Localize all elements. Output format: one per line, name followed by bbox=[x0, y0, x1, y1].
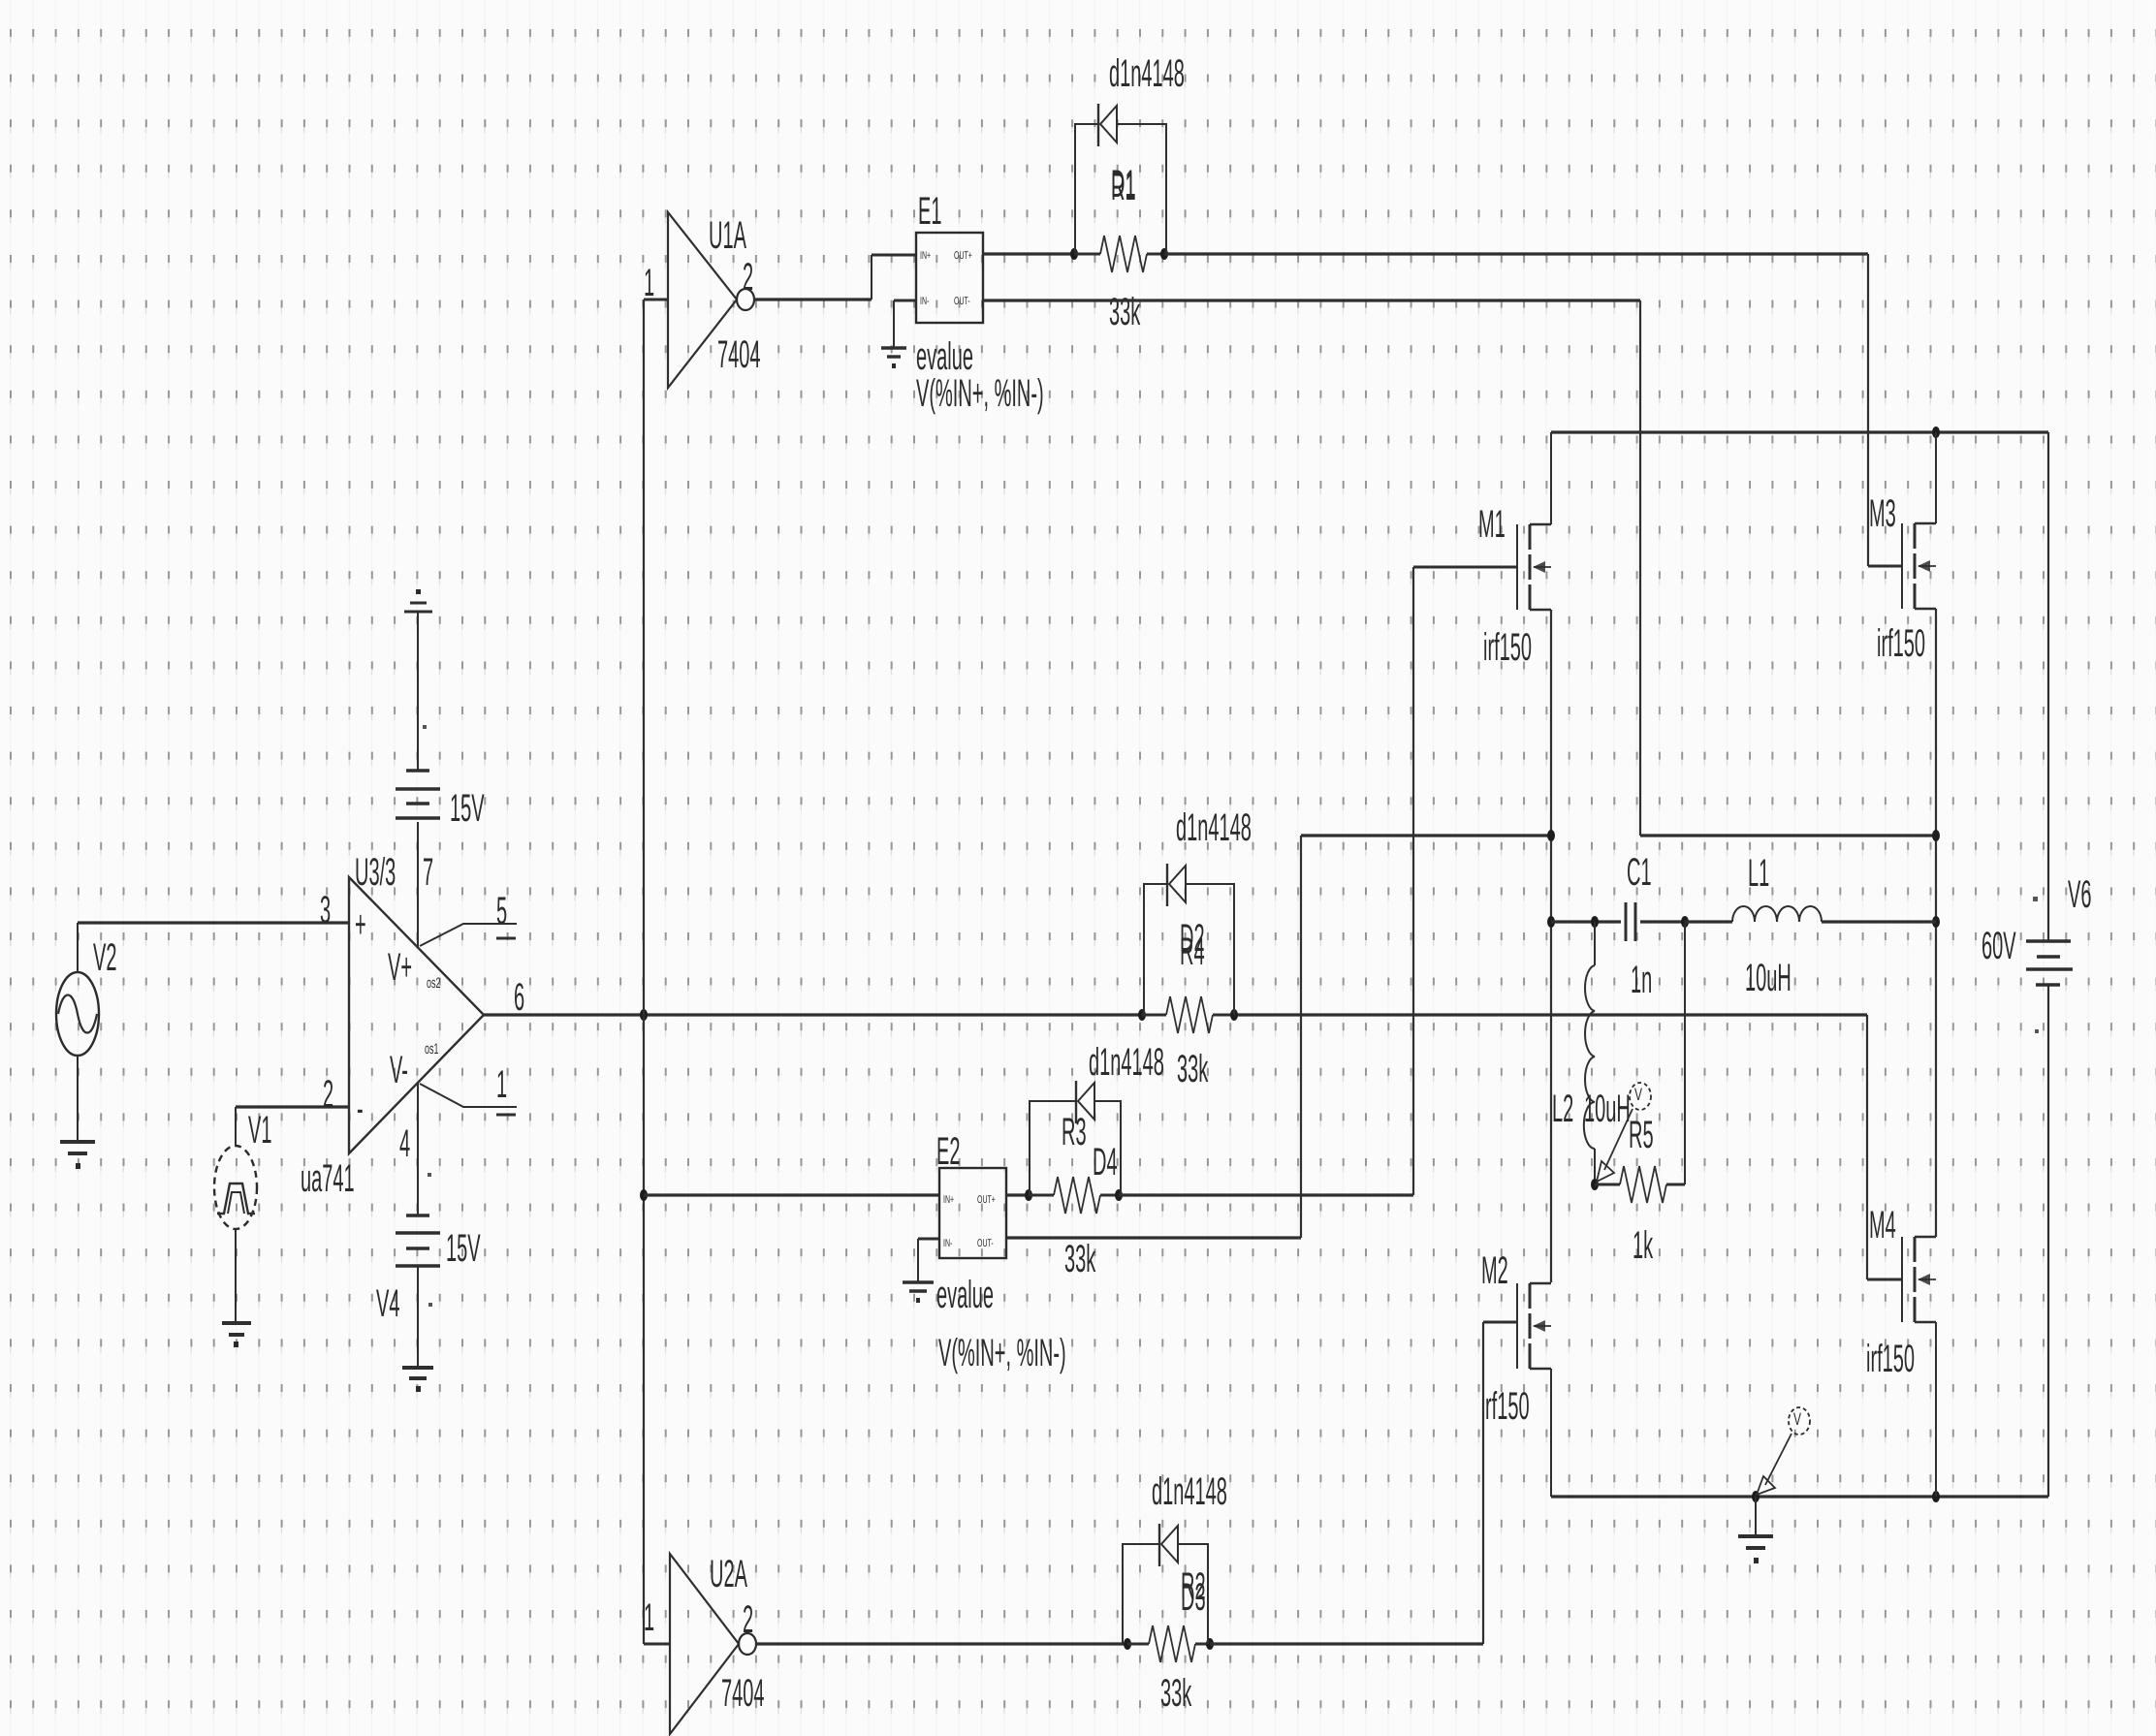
svg-text:L2: L2 bbox=[1552, 1089, 1573, 1131]
diode D4 d1n4148 (parallel with R3) bbox=[1030, 1042, 1164, 1195]
svg-text:2: 2 bbox=[743, 1599, 753, 1642]
wire vertical bus to U1A / E2 / U2A inputs bbox=[643, 300, 645, 1644]
svg-text:3: 3 bbox=[320, 890, 331, 932]
wire E1 OUT- to output node B bbox=[983, 300, 1936, 836]
svg-text:evalue: evalue bbox=[936, 1275, 994, 1317]
wire V1 top to op-amp pin 2 bbox=[236, 1107, 349, 1146]
svg-text:7: 7 bbox=[423, 852, 433, 895]
svg-text:V1: V1 bbox=[248, 1110, 271, 1152]
resistor R3 33k bbox=[1029, 1177, 1119, 1281]
svg-text:IN-: IN- bbox=[920, 297, 930, 307]
node: R4 right bbox=[1230, 1009, 1238, 1021]
svg-text:+: + bbox=[355, 904, 366, 947]
svg-text:OUT+: OUT+ bbox=[954, 251, 972, 262]
ground (V2) bbox=[60, 1142, 95, 1169]
resistor R4 33k (series in op-amp output) bbox=[1142, 996, 1234, 1091]
svg-text:V: V bbox=[1793, 1409, 1801, 1430]
svg-text:IN-: IN- bbox=[943, 1239, 953, 1249]
svg-text:L1: L1 bbox=[1748, 853, 1769, 896]
svg-text:irf150: irf150 bbox=[1877, 623, 1925, 666]
svg-text:1n: 1n bbox=[1631, 960, 1652, 1002]
wire E2 OUT- to node A bbox=[1006, 836, 1551, 1238]
svg-text:V6: V6 bbox=[2068, 874, 2091, 917]
node: node B top (E1 ref) bbox=[1932, 830, 1940, 841]
wire E1 OUT+ to R1 bbox=[983, 252, 1074, 255]
transistor M4 irf150 bbox=[1866, 1205, 1936, 1381]
resistor R1 33k bbox=[1074, 236, 1164, 334]
wire M3 drain to rail bbox=[1935, 432, 1937, 523]
voltage probe (node A filter tap) bbox=[1597, 1083, 1651, 1182]
svg-text:M2: M2 bbox=[1481, 1250, 1508, 1293]
svg-text:irf150: irf150 bbox=[1483, 627, 1532, 670]
svg-text:-: - bbox=[357, 1089, 364, 1131]
ground (bottom rail) bbox=[1738, 1536, 1773, 1563]
svg-text:V4: V4 bbox=[376, 1283, 399, 1326]
svg-text:33k: 33k bbox=[1064, 1239, 1096, 1281]
svg-text:1: 1 bbox=[644, 263, 654, 305]
svg-text:d1n4148: d1n4148 bbox=[1152, 1471, 1227, 1514]
svg-text:60V: 60V bbox=[1982, 926, 2016, 968]
wire op-amp pin 7 to battery V3 bbox=[417, 822, 419, 948]
svg-text:d1n4148: d1n4148 bbox=[1109, 53, 1185, 96]
op-amp U3/3 ua741 bbox=[301, 852, 484, 1201]
svg-text:M1: M1 bbox=[1478, 504, 1506, 547]
node: op-amp out / inverter bus junction bbox=[640, 1009, 648, 1021]
svg-text:C1: C1 bbox=[1627, 852, 1652, 895]
svg-text:d1n4148: d1n4148 bbox=[1176, 807, 1252, 850]
svg-text:V2: V2 bbox=[93, 937, 116, 980]
wire ground stub on bottom rail bbox=[1755, 1497, 1757, 1534]
svg-text:2: 2 bbox=[743, 257, 753, 300]
resistor R2 33k bbox=[1127, 1626, 1210, 1716]
inverter U2A 7404 bbox=[644, 1554, 765, 1734]
node: L2 top bbox=[1591, 916, 1599, 928]
svg-text:15V: 15V bbox=[450, 788, 485, 831]
svg-text:OUT-: OUT- bbox=[954, 297, 970, 307]
resistor R5 1k bbox=[1595, 922, 1685, 1268]
svg-text:IN+: IN+ bbox=[920, 251, 931, 262]
wire M3 source / M4 drain vertical (node B) bbox=[1935, 609, 1937, 1237]
svg-text:irf150: irf150 bbox=[1866, 1339, 1915, 1381]
wire M2 source to bottom rail bbox=[1550, 1369, 1552, 1497]
node: M4 source on bottom rail bbox=[1932, 1491, 1940, 1502]
svg-text:R1: R1 bbox=[1111, 167, 1136, 209]
node: R4 left bbox=[1138, 1009, 1146, 1021]
op-amp pin 1 stub bbox=[420, 1084, 517, 1115]
inductor L2 10uH bbox=[1552, 922, 1631, 1184]
svg-text:ua741: ua741 bbox=[301, 1158, 355, 1201]
svg-text:1: 1 bbox=[496, 1064, 507, 1107]
node: R1 left bbox=[1070, 248, 1078, 260]
node: C1 right / R5 top bbox=[1681, 916, 1689, 928]
svg-text:M3: M3 bbox=[1869, 493, 1896, 536]
wire M4 source down bbox=[1935, 1322, 1937, 1497]
evalue block E1 bbox=[916, 191, 1044, 416]
node: L2 bottom / R5 left bbox=[1591, 1179, 1599, 1190]
node: node A top (E2 ref) bbox=[1547, 830, 1555, 841]
svg-text:R5: R5 bbox=[1629, 1115, 1654, 1157]
svg-text:7404: 7404 bbox=[721, 1673, 765, 1716]
wire V2 top to op-amp pin 3 bbox=[78, 923, 349, 973]
wire battery V4 to ground bbox=[417, 1266, 419, 1367]
svg-text:D3: D3 bbox=[1181, 1577, 1206, 1620]
battery V3 15V bbox=[396, 589, 485, 831]
svg-text:os1: os1 bbox=[425, 1040, 439, 1057]
svg-text:15V: 15V bbox=[446, 1228, 481, 1271]
svg-text:E2: E2 bbox=[936, 1131, 960, 1174]
svg-text:V+: V+ bbox=[388, 947, 412, 990]
evalue block E2 bbox=[936, 1131, 1066, 1375]
wire M1 drain to top rail bbox=[1550, 432, 1552, 524]
svg-text:2: 2 bbox=[323, 1074, 333, 1117]
node: node A / C1-L2 bbox=[1547, 916, 1555, 928]
voltage probe (output node) bbox=[1757, 1407, 1810, 1495]
diode D1 d1n4148 (parallel with R1) bbox=[1075, 53, 1185, 254]
inductor L1 10uH bbox=[1685, 853, 1936, 1000]
node: node B / L1 right bbox=[1932, 916, 1940, 928]
wire R3 to M1 gate bbox=[1119, 567, 1517, 1195]
svg-text:V: V bbox=[1634, 1085, 1642, 1105]
node: R2 left bbox=[1124, 1638, 1131, 1650]
node: R2 right bbox=[1206, 1638, 1214, 1650]
transistor M3 irf150 bbox=[1869, 493, 1936, 666]
svg-text:10uH: 10uH bbox=[1745, 958, 1791, 1000]
ground (V4) bbox=[402, 1368, 433, 1392]
wire V1 bottom bbox=[235, 1229, 237, 1321]
svg-text:1k: 1k bbox=[1633, 1225, 1654, 1268]
svg-text:33k: 33k bbox=[1160, 1673, 1192, 1716]
ground (V1) bbox=[222, 1323, 251, 1347]
svg-text:7404: 7404 bbox=[717, 334, 761, 377]
svg-text:M4: M4 bbox=[1869, 1205, 1896, 1247]
svg-text:OUT-: OUT- bbox=[977, 1239, 994, 1249]
svg-text:R4: R4 bbox=[1180, 931, 1205, 974]
svg-text:4: 4 bbox=[399, 1123, 410, 1166]
svg-text:V(%IN+, %IN-): V(%IN+, %IN-) bbox=[938, 1333, 1066, 1375]
svg-text:U3/3: U3/3 bbox=[355, 852, 396, 895]
op-amp pin 5 stub bbox=[420, 924, 517, 946]
svg-text:os2: os2 bbox=[427, 974, 441, 991]
wire U2A output to R2 bbox=[756, 1642, 1127, 1645]
svg-text:E1: E1 bbox=[918, 191, 941, 234]
node: R1 right bbox=[1160, 248, 1168, 260]
node: R3 right bbox=[1115, 1189, 1123, 1201]
battery V6 60V bbox=[1982, 432, 2091, 1497]
op-amp pin number labels bbox=[320, 852, 524, 1166]
svg-text:rf150: rf150 bbox=[1485, 1386, 1530, 1429]
wire bus to E2 IN+ bbox=[644, 1193, 939, 1196]
svg-text:33k: 33k bbox=[1177, 1049, 1209, 1091]
diode D2 d1n4148 (parallel with R4) bbox=[1144, 807, 1252, 1015]
wire top rail bbox=[1551, 430, 2048, 433]
svg-text:U1A: U1A bbox=[709, 215, 747, 258]
svg-text:33k: 33k bbox=[1109, 292, 1141, 334]
wire E1 IN- from ground bbox=[894, 300, 916, 347]
svg-text:V-: V- bbox=[390, 1050, 408, 1092]
wire bottom rail bbox=[1551, 1495, 2048, 1498]
wire E2 IN- from ground bbox=[918, 1239, 939, 1281]
wire E2 OUT+ to R3 bbox=[1006, 1193, 1029, 1196]
wire op-amp output pin 6 to M4 gate bbox=[484, 1015, 1902, 1279]
source V2 (sine) bbox=[56, 937, 116, 1056]
wire op-amp pin 4 to battery V4 bbox=[417, 1083, 419, 1215]
svg-text:V(%IN+, %IN-): V(%IN+, %IN-) bbox=[916, 373, 1044, 416]
wire M1 source / M2 drain vertical (node A) bbox=[1550, 610, 1552, 1282]
ground (E2) bbox=[903, 1282, 934, 1303]
svg-text:OUT+: OUT+ bbox=[977, 1195, 996, 1206]
svg-text:IN+: IN+ bbox=[943, 1195, 954, 1206]
svg-text:5: 5 bbox=[496, 891, 507, 933]
svg-text:R3: R3 bbox=[1062, 1112, 1087, 1154]
node: bus to E2 IN+ junction bbox=[640, 1189, 648, 1201]
svg-text:D4: D4 bbox=[1093, 1142, 1118, 1184]
inverter U1A 7404 bbox=[644, 212, 761, 388]
transistor M2 irf150 bbox=[1481, 1250, 1551, 1429]
ground (E1) bbox=[881, 348, 906, 368]
wire R1 to M3 gate bbox=[1164, 254, 1902, 566]
wire R2 to M2 gate bbox=[1210, 1322, 1517, 1644]
node: M3 drain on rail bbox=[1932, 426, 1940, 438]
diode D3 d1n4148 (parallel with R2) bbox=[1123, 1471, 1227, 1644]
svg-text:d1n4148: d1n4148 bbox=[1089, 1042, 1164, 1085]
node: R3 left bbox=[1025, 1189, 1032, 1201]
svg-text:1: 1 bbox=[644, 1597, 654, 1640]
source V1 (pulse) bbox=[214, 1110, 271, 1229]
svg-text:U2A: U2A bbox=[710, 1554, 748, 1596]
capacitor C1 1n bbox=[1551, 852, 1685, 1002]
wire U1A output to E1 bbox=[754, 255, 916, 300]
wire V2 bottom bbox=[77, 1056, 79, 1140]
transistor M1 irf150 bbox=[1478, 504, 1551, 670]
battery V4 15V bbox=[376, 1173, 481, 1326]
svg-text:10uH: 10uH bbox=[1584, 1089, 1631, 1131]
node: probe/ground junction on bottom rail bbox=[1752, 1491, 1760, 1502]
